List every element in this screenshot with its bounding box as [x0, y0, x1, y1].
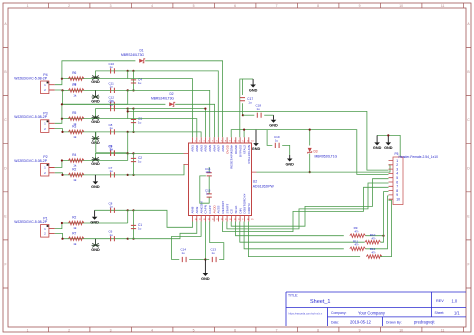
junction P1 caprow [127, 209, 129, 211]
wire C19 branch [267, 130, 272, 146]
diode D3 MBR0520LT1G [308, 148, 312, 152]
ground near C17 [252, 79, 254, 85]
svg-text:7: 7 [276, 328, 278, 332]
svg-text:predragvojt: predragvojt [414, 320, 435, 325]
wire IC pin5(bot) to C13 [210, 222, 224, 260]
wire P3 row2 ext [128, 131, 134, 133]
svg-text:6: 6 [234, 4, 236, 8]
svg-text:B: B [4, 70, 7, 74]
capacitor C8 1u (series, P1 top row) [111, 208, 115, 213]
wire U2 cap ladder left [200, 176, 209, 203]
svg-text:R1: R1 [72, 83, 76, 87]
svg-text:Header-Female-2.54_1x10: Header-Female-2.54_1x10 [399, 155, 439, 159]
svg-text:7: 7 [221, 140, 223, 142]
svg-text:9: 9 [229, 140, 231, 142]
svg-text:9: 9 [359, 4, 361, 8]
junction P2 row2 a [127, 174, 129, 176]
wire P4 parallel cap column [133, 71, 135, 91]
svg-text:WJ2EDGVC-5.08-2P: WJ2EDGVC-5.08-2P [14, 220, 48, 224]
wire P4 caprow to IC pin7 top [134, 71, 219, 137]
capacitor C18 1u [257, 113, 261, 118]
resistor R7 1k (P1 row2) [68, 237, 84, 241]
svg-text:START: START [225, 204, 229, 214]
op-amp U2 ADS1262IPW body [189, 143, 252, 216]
svg-text:1u: 1u [257, 107, 261, 111]
svg-text:1: 1 [195, 140, 197, 142]
svg-text:8: 8 [317, 328, 319, 332]
svg-text:MBR0520LT1G: MBR0520LT1G [315, 155, 338, 159]
svg-text:GND: GND [91, 162, 100, 166]
wire P2 vert loop [127, 153, 129, 160]
junction P1 row2 a [127, 238, 129, 240]
wire D3 top [309, 130, 311, 146]
junction P2 parallel cap top [132, 152, 134, 154]
chassis ground P3 row1 [95, 116, 97, 118]
wire D1 row to IC pin8 top [145, 61, 222, 137]
ground below C19 [289, 155, 291, 159]
chassis ground P3 row2 [95, 132, 97, 139]
svg-text:WJ2EDGVC-5.08-2P: WJ2EDGVC-5.08-2P [14, 76, 48, 80]
P1 pin stubs [49, 229, 55, 234]
wire P1 caprow to IC pin28 [134, 210, 193, 227]
resistor R11 47r [350, 247, 366, 251]
svg-text:GND: GND [90, 221, 99, 225]
capacitor C15 1u (inside U2 area) [207, 194, 212, 197]
wire D2 row to IC pin6 top [175, 104, 214, 137]
svg-text:A: A [4, 22, 7, 26]
svg-text:1u: 1u [275, 138, 279, 142]
junction wire A start [127, 110, 129, 112]
junction P1 pin2 [61, 238, 63, 240]
wire P4 stem to cap row [96, 71, 128, 79]
svg-text:TITLE:: TITLE: [288, 293, 298, 297]
svg-text:6: 6 [234, 328, 236, 332]
wire OVDD pin up to C17 branch [240, 79, 243, 137]
svg-text:15: 15 [251, 219, 254, 221]
svg-text:1k: 1k [73, 242, 77, 246]
wire P1 pin2 row2 [55, 233, 128, 238]
capacitor C19 1u [275, 143, 279, 148]
svg-text:4: 4 [151, 4, 153, 8]
svg-text:GND: GND [249, 88, 258, 92]
wire P4 pin1 up to D1 row [62, 61, 135, 79]
ground B near header [387, 135, 389, 142]
capacitor C13 1u [212, 257, 216, 262]
P3 pin stubs [49, 123, 55, 128]
svg-text:5: 5 [193, 4, 195, 8]
wire R9 to vert [365, 235, 383, 237]
capacitor C3 1u (parallel, P3) [131, 120, 136, 123]
svg-text:1.0: 1.0 [452, 298, 458, 303]
svg-text:D: D [4, 166, 7, 170]
svg-text:1u: 1u [110, 65, 114, 69]
wire P3 pin1 to row1 [55, 119, 128, 124]
svg-text:Sheet_1: Sheet_1 [310, 299, 331, 305]
wire P3 parallel cap column [133, 109, 135, 132]
svg-text:GND: GND [91, 100, 100, 104]
svg-text:11: 11 [441, 4, 445, 8]
svg-text:GND: GND [384, 146, 393, 150]
svg-text:17: 17 [242, 219, 245, 221]
wire IC pin11 to R9 [236, 222, 344, 236]
chassis ground P1 row2 [95, 239, 97, 246]
wire IC right pin to header pin2 [257, 165, 391, 172]
svg-text:Your Company: Your Company [358, 311, 386, 316]
junction rail pin13 [243, 129, 245, 131]
wire P4 pin2 row2 [55, 89, 128, 91]
wire P4 pin2 down to capbot row [62, 90, 64, 104]
wire P4 caprow ext [128, 70, 134, 72]
svg-text:3: 3 [110, 328, 112, 332]
svg-text:2: 2 [68, 328, 70, 332]
diode D1 MBRS240LT3G [139, 59, 144, 63]
junction P3 pin2 [61, 131, 63, 133]
ground A near header [376, 135, 378, 142]
svg-text:1k: 1k [73, 135, 77, 139]
svg-text:1/1: 1/1 [454, 311, 460, 316]
svg-text:AIN4: AIN4 [212, 145, 216, 152]
svg-text:8: 8 [317, 4, 319, 8]
junction P3 row2 a [127, 131, 129, 133]
wire C17 down [241, 103, 243, 115]
wire P4 row2 to IC pin5 top [134, 90, 210, 137]
resistor R6 1k (P4 row1) [68, 77, 84, 81]
svg-text:D1: D1 [139, 49, 143, 53]
svg-text:24: 24 [212, 219, 215, 221]
wire P1 caprow ext [128, 209, 134, 211]
svg-text:47r: 47r [371, 251, 375, 255]
svg-text:E: E [4, 214, 7, 218]
chassis ground P4 row1 [95, 76, 97, 78]
connector P4 WJ2EDGVC-5.08-2P [41, 81, 49, 94]
svg-text:GND: GND [269, 124, 278, 128]
svg-text:16: 16 [247, 219, 250, 221]
capacitor C11 1u (series, P4 row2) [111, 88, 115, 93]
capacitor C16 100n (inside U2 area) [207, 173, 212, 176]
ground below IC [204, 260, 206, 274]
svg-text:WJ2EDGVC-5.08-2P: WJ2EDGVC-5.08-2P [14, 159, 48, 163]
svg-text:XTAL1/CLKIN: XTAL1/CLKIN [247, 145, 251, 164]
svg-text:R7: R7 [72, 231, 76, 235]
svg-text:25: 25 [208, 219, 211, 221]
svg-text:ADS1262IPW: ADS1262IPW [253, 184, 275, 188]
junction P4 caprow [127, 70, 129, 72]
U2 pin stubs [193, 137, 257, 221]
wire R12 up to header pin10 [380, 200, 391, 256]
svg-text:1u: 1u [110, 126, 114, 130]
junction P3 row2 b [132, 131, 134, 133]
svg-text:GND: GND [252, 147, 261, 151]
svg-text:6: 6 [216, 140, 218, 142]
junction P1 parallel cap top [132, 209, 134, 211]
svg-text:1u: 1u [110, 233, 114, 237]
capacitor C7 1u (series, P2 row2) [111, 172, 115, 177]
wire P2 row2 ext [128, 174, 134, 176]
wire D3 bottom [309, 154, 311, 173]
svg-text:10: 10 [396, 198, 400, 202]
svg-text:2: 2 [199, 140, 201, 142]
resistor R1 1k (P4 row2) [68, 89, 84, 93]
junction P3 parallel cap top [132, 108, 134, 110]
wire P2 pin1 to row1 [55, 161, 128, 168]
wire P4 row2 ext [128, 89, 134, 91]
wire P4 pin1 to row1 [55, 79, 128, 85]
junction D2 row / P4 capbot [61, 103, 63, 105]
connector P5 Header-Female-2.54_1x10 [393, 157, 403, 205]
svg-text:R4: R4 [72, 153, 76, 157]
svg-text:11: 11 [441, 328, 445, 332]
resistor R10 47r [365, 240, 381, 244]
capacitor C1 1u (parallel, P1) [131, 225, 136, 228]
svg-text:2: 2 [68, 4, 70, 8]
resistor R4 1k (P2 row1) [68, 159, 84, 163]
svg-text:1u: 1u [110, 103, 114, 107]
capacitor C19 1u (series, P3 top row) [111, 106, 115, 111]
svg-text:1u: 1u [110, 148, 114, 152]
junction P3 caprow branch [204, 108, 206, 110]
svg-text:C: C [4, 118, 7, 122]
svg-text:U2: U2 [253, 180, 257, 184]
capacitor C10 1u (series, P4 top row) [111, 68, 115, 73]
svg-text:R3: R3 [72, 125, 76, 129]
capacitor C5 1u (series, P2 top row) [111, 151, 115, 156]
svg-text:4: 4 [208, 140, 210, 142]
svg-text:5: 5 [193, 328, 195, 332]
chassis ground P2 row1 [95, 158, 97, 160]
svg-text:F: F [467, 263, 469, 267]
wire P1 row2 to IC pin27 [134, 222, 197, 239]
svg-text:Date:: Date: [331, 320, 339, 324]
svg-text:D: D [467, 166, 470, 170]
wire net A to header pin3 [128, 111, 389, 170]
svg-text:9: 9 [359, 328, 361, 332]
svg-text:GND: GND [91, 185, 100, 189]
junction bottom gnd node [204, 258, 206, 260]
capacitor C6 1u (series, P1 row2) [111, 236, 115, 241]
IC left pin stubs [184, 153, 189, 164]
resistor R5 1k (P3 row1) [68, 117, 84, 121]
wire IC pin3(bot) to C14 [172, 222, 202, 260]
title block lines [286, 292, 466, 326]
wire rail to header pin4 [231, 130, 388, 175]
junction P2 pin1 [61, 159, 63, 161]
svg-text:GND: GND [91, 120, 100, 124]
resistor R2 1k (P2 row2) [68, 173, 84, 177]
wire C19 to gnd [282, 145, 290, 155]
wire P3 vert loop [127, 109, 129, 119]
svg-text:100n: 100n [206, 171, 212, 174]
svg-text:10: 10 [399, 328, 403, 332]
svg-text:1u: 1u [138, 160, 142, 164]
svg-text:AIN0: AIN0 [195, 145, 199, 152]
junction R9/R10 vert [382, 235, 384, 237]
svg-text:GND: GND [373, 146, 382, 150]
svg-text:3: 3 [110, 4, 112, 8]
svg-text:REV: REV [436, 299, 444, 303]
connector P1 WJ2EDGVC-5.08-2P [41, 225, 49, 238]
svg-text:BYPASS: BYPASS [238, 145, 242, 157]
svg-text:27: 27 [199, 219, 202, 221]
svg-text:1: 1 [27, 328, 29, 332]
ground (triangle) below P2 row2 [94, 175, 96, 182]
wire P2 row2 to IC left [134, 164, 185, 175]
wire IC pin14 to R12 [248, 222, 360, 257]
resistor R9 47r [350, 234, 366, 238]
svg-text:1u: 1u [110, 169, 114, 173]
resistor R2 1k (P1 row1) [68, 221, 84, 225]
P5 pin stubs [389, 161, 394, 200]
wire P3 caprow to IC pin4 top [134, 109, 206, 138]
wire P3 caprow ext [128, 108, 134, 110]
P2 pin stubs [49, 168, 55, 173]
svg-text:GND: GND [91, 248, 100, 252]
wire P2 stem to cap row [96, 153, 128, 160]
svg-text:MBRS240LT3G: MBRS240LT3G [121, 53, 144, 57]
svg-text:1u: 1u [248, 101, 252, 105]
wire P4 row1 to IC pin1 top [128, 79, 193, 138]
capacitor C2 1u (parallel, P2) [131, 158, 136, 161]
wire IC pin12 to R10 [240, 222, 365, 243]
svg-text:GND: GND [201, 277, 210, 281]
resistor R3 1k (P3 row2) [68, 130, 84, 134]
svg-text:1u: 1u [212, 251, 216, 255]
svg-text:AVDD: AVDD [212, 204, 216, 213]
svg-text:7: 7 [276, 4, 278, 8]
svg-text:AIN9: AIN9 [195, 206, 199, 213]
svg-text:Drawn By:: Drawn By: [386, 320, 402, 324]
wire P4 vert loop [127, 71, 129, 79]
wire P3 stem to capbot row [95, 132, 97, 153]
svg-text:MBRS240LT3G: MBRS240LT3G [151, 97, 174, 101]
wire net B end [264, 114, 273, 116]
capacitor C4 1u (parallel, P4) [131, 80, 136, 83]
wire P3 row2 to IC pin3 top [134, 132, 202, 137]
svg-text:4: 4 [151, 328, 153, 332]
resistor R12 47r [366, 255, 382, 259]
svg-text:1u: 1u [110, 85, 114, 89]
svg-text:1k: 1k [73, 226, 77, 230]
junction P4 pin1 [61, 78, 63, 80]
wire to gnd stem [242, 78, 253, 80]
svg-text:E: E [467, 214, 470, 218]
svg-text:10: 10 [399, 4, 403, 8]
connector P2 WJ2EDGVC-5.08-2P [41, 163, 49, 176]
ground (triangle) on P1 cap row [94, 210, 96, 217]
svg-text:DRDY#: DRDY# [247, 203, 251, 214]
junction P1 row2 b [132, 238, 134, 240]
wire IC pin13 to R11 [244, 222, 344, 249]
wire IC pin9 to header pin6 [227, 183, 389, 229]
wire P2 parallel cap column [133, 153, 135, 175]
wire C14 to center node [189, 259, 205, 261]
junction P3 caprow [127, 108, 129, 110]
svg-text:Company:: Company: [331, 311, 347, 315]
connector P3 WJ2EDGVC-5.08-2P [41, 120, 49, 133]
wire P4 capbot loop [63, 90, 128, 104]
P4 pin stubs [49, 85, 55, 90]
svg-text:1u: 1u [182, 251, 186, 255]
svg-text:GND: GND [285, 162, 294, 166]
svg-text:1: 1 [27, 4, 29, 8]
svg-text:WJ2EDGVC-5.08-2P: WJ2EDGVC-5.08-2P [14, 115, 48, 119]
svg-text:12: 12 [242, 140, 245, 142]
junction P4 row2 a [127, 89, 129, 91]
svg-text:10: 10 [234, 140, 237, 142]
junction P4 parallel cap top [132, 70, 134, 72]
svg-text:47r: 47r [354, 243, 358, 247]
svg-text:htlps:/easyeda.com/sch-a.b.n: htlps:/easyeda.com/sch-a.b.n [289, 311, 323, 315]
diode D2 MBRS240LT3G [169, 102, 174, 106]
svg-text:R2: R2 [72, 216, 76, 220]
chassis ground P4 row2 [95, 90, 97, 97]
wire IC pin8 to header pin7 [223, 187, 389, 231]
svg-text:D2: D2 [169, 92, 173, 96]
wire P1 vert loop [127, 210, 129, 223]
svg-text:1u: 1u [110, 205, 114, 209]
svg-text:47r: 47r [371, 236, 375, 240]
wire P2 caprow ext [128, 152, 134, 154]
wire between C16 C15 [208, 176, 210, 193]
wire P1 row2 ext [128, 238, 134, 240]
junction P1 pin1 [61, 222, 63, 224]
wire rail branch to IC pin13 top [243, 130, 245, 138]
svg-text:R6: R6 [72, 71, 76, 75]
svg-text:21: 21 [225, 219, 228, 221]
capacitor C9 1u (series, P3 bottom row) [111, 150, 115, 155]
wire net B left [243, 114, 254, 116]
wire P3 row1 to IC pin2 top [128, 119, 197, 138]
wire R10 up to header pin8 [381, 192, 389, 243]
junction P2 caprow [127, 152, 129, 154]
junction C17 / net B [242, 114, 244, 116]
svg-text:C: C [467, 118, 470, 122]
svg-text:DIN: DIN [238, 208, 242, 213]
junction gnd pair [387, 134, 389, 136]
capacitor C8 1u (series, P3 row2) [111, 129, 115, 134]
svg-text:1k: 1k [73, 94, 77, 98]
svg-text:R2: R2 [72, 168, 76, 172]
capacitor C14 1u [182, 257, 186, 262]
wire P2 caprow to IC left [134, 152, 184, 154]
svg-text:8: 8 [225, 140, 227, 142]
svg-text:5: 5 [212, 140, 214, 142]
wire IC pin10 to header pin5 [231, 179, 388, 227]
svg-text:28: 28 [195, 219, 198, 221]
svg-text:OVDD: OVDD [225, 144, 229, 154]
svg-text:14: 14 [251, 140, 254, 142]
svg-text:47r: 47r [354, 230, 358, 234]
wire P1 cap row [95, 209, 128, 211]
wire P3 stem to cap row [96, 109, 128, 119]
ground on rail [255, 130, 257, 144]
svg-text:11: 11 [238, 140, 241, 142]
svg-text:23: 23 [216, 219, 219, 221]
junction P3 pin1 [61, 118, 63, 120]
svg-text:13: 13 [247, 140, 250, 142]
junction D3 on rail [309, 129, 311, 131]
wire P1 parallel cap column [133, 210, 135, 238]
wire U2 C16 top [208, 167, 210, 172]
junction P4 row2 b [132, 89, 134, 91]
svg-text:A: A [467, 22, 470, 26]
wire P3 pin2 row2 [55, 129, 128, 132]
svg-text:B: B [467, 70, 470, 74]
svg-text:19: 19 [234, 219, 237, 221]
svg-text:GND: GND [91, 80, 100, 84]
capacitor C17 1u [240, 98, 245, 101]
svg-text:1u: 1u [138, 227, 142, 231]
wire gnd pair to header pin1 [377, 135, 400, 160]
